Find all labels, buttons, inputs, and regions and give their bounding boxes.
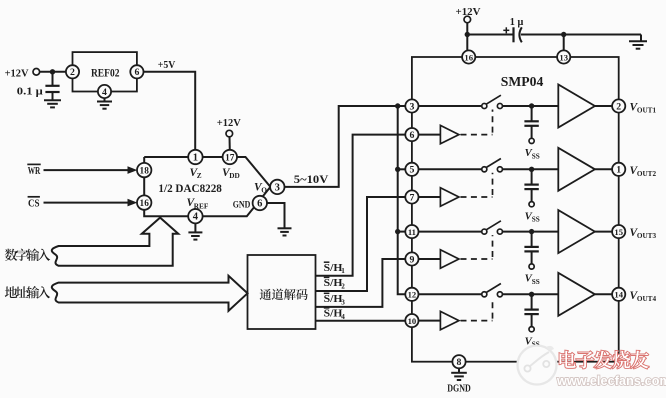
svg-text:12: 12 <box>408 290 417 300</box>
svg-text:SMP04: SMP04 <box>501 75 544 90</box>
svg-text:1: 1 <box>616 165 621 176</box>
svg-text:OUT1: OUT1 <box>637 107 657 115</box>
svg-text:4: 4 <box>193 212 199 223</box>
svg-text:1 μ: 1 μ <box>510 17 524 28</box>
svg-text:4: 4 <box>341 313 345 321</box>
svg-text:S/H: S/H <box>324 278 343 289</box>
svg-text:5: 5 <box>409 165 414 176</box>
svg-text:6: 6 <box>134 67 139 78</box>
svg-text:2: 2 <box>70 67 75 78</box>
svg-text:18: 18 <box>140 167 150 177</box>
svg-text:4: 4 <box>102 87 107 98</box>
svg-text:3: 3 <box>341 298 345 306</box>
svg-text:1/2 DAC8228: 1/2 DAC8228 <box>158 183 222 195</box>
svg-text:DGND: DGND <box>447 383 471 393</box>
svg-text:REF02: REF02 <box>91 67 120 79</box>
svg-text:S/H: S/H <box>324 263 343 274</box>
svg-text:+12V: +12V <box>5 67 29 79</box>
svg-text:WR: WR <box>28 165 41 177</box>
svg-text:17: 17 <box>225 153 235 163</box>
svg-text:16: 16 <box>140 199 150 209</box>
svg-text:3: 3 <box>275 182 280 193</box>
svg-text:9: 9 <box>409 254 414 265</box>
svg-text:SS: SS <box>532 216 540 224</box>
svg-text:10: 10 <box>408 316 417 326</box>
svg-text:OUT2: OUT2 <box>637 170 657 178</box>
svg-text:14: 14 <box>614 290 623 300</box>
svg-text:+5V: +5V <box>158 59 176 71</box>
svg-text:CS: CS <box>28 197 40 209</box>
svg-text:+12V: +12V <box>217 117 241 129</box>
svg-text:11: 11 <box>408 227 416 237</box>
svg-text:S/H: S/H <box>324 309 343 320</box>
svg-text:2: 2 <box>616 101 621 112</box>
svg-text:13: 13 <box>559 52 568 62</box>
svg-text:Z: Z <box>197 171 202 180</box>
svg-text:15: 15 <box>614 227 623 237</box>
svg-text:OUT3: OUT3 <box>637 232 657 240</box>
svg-text:16: 16 <box>464 52 473 62</box>
svg-text:OUT4: OUT4 <box>637 295 657 303</box>
svg-text:5~10V: 5~10V <box>294 174 329 186</box>
svg-text:REF: REF <box>194 201 209 210</box>
svg-text:S/H: S/H <box>324 294 343 305</box>
svg-text:1: 1 <box>341 267 345 275</box>
svg-text:6: 6 <box>257 198 262 209</box>
svg-text:DD: DD <box>229 171 240 180</box>
svg-text:GND: GND <box>233 199 251 210</box>
svg-text:O: O <box>261 186 267 195</box>
svg-text:SS: SS <box>532 278 540 286</box>
svg-text:0.1 μ: 0.1 μ <box>17 87 43 98</box>
svg-text:SS: SS <box>532 152 540 160</box>
svg-text:8: 8 <box>457 357 462 368</box>
svg-text:www.elecfans.com: www.elecfans.com <box>556 374 666 388</box>
svg-text:2: 2 <box>341 282 345 290</box>
svg-text:1: 1 <box>193 152 198 163</box>
svg-text:6: 6 <box>409 130 414 141</box>
svg-text:7: 7 <box>409 192 414 203</box>
svg-text:3: 3 <box>409 101 414 112</box>
